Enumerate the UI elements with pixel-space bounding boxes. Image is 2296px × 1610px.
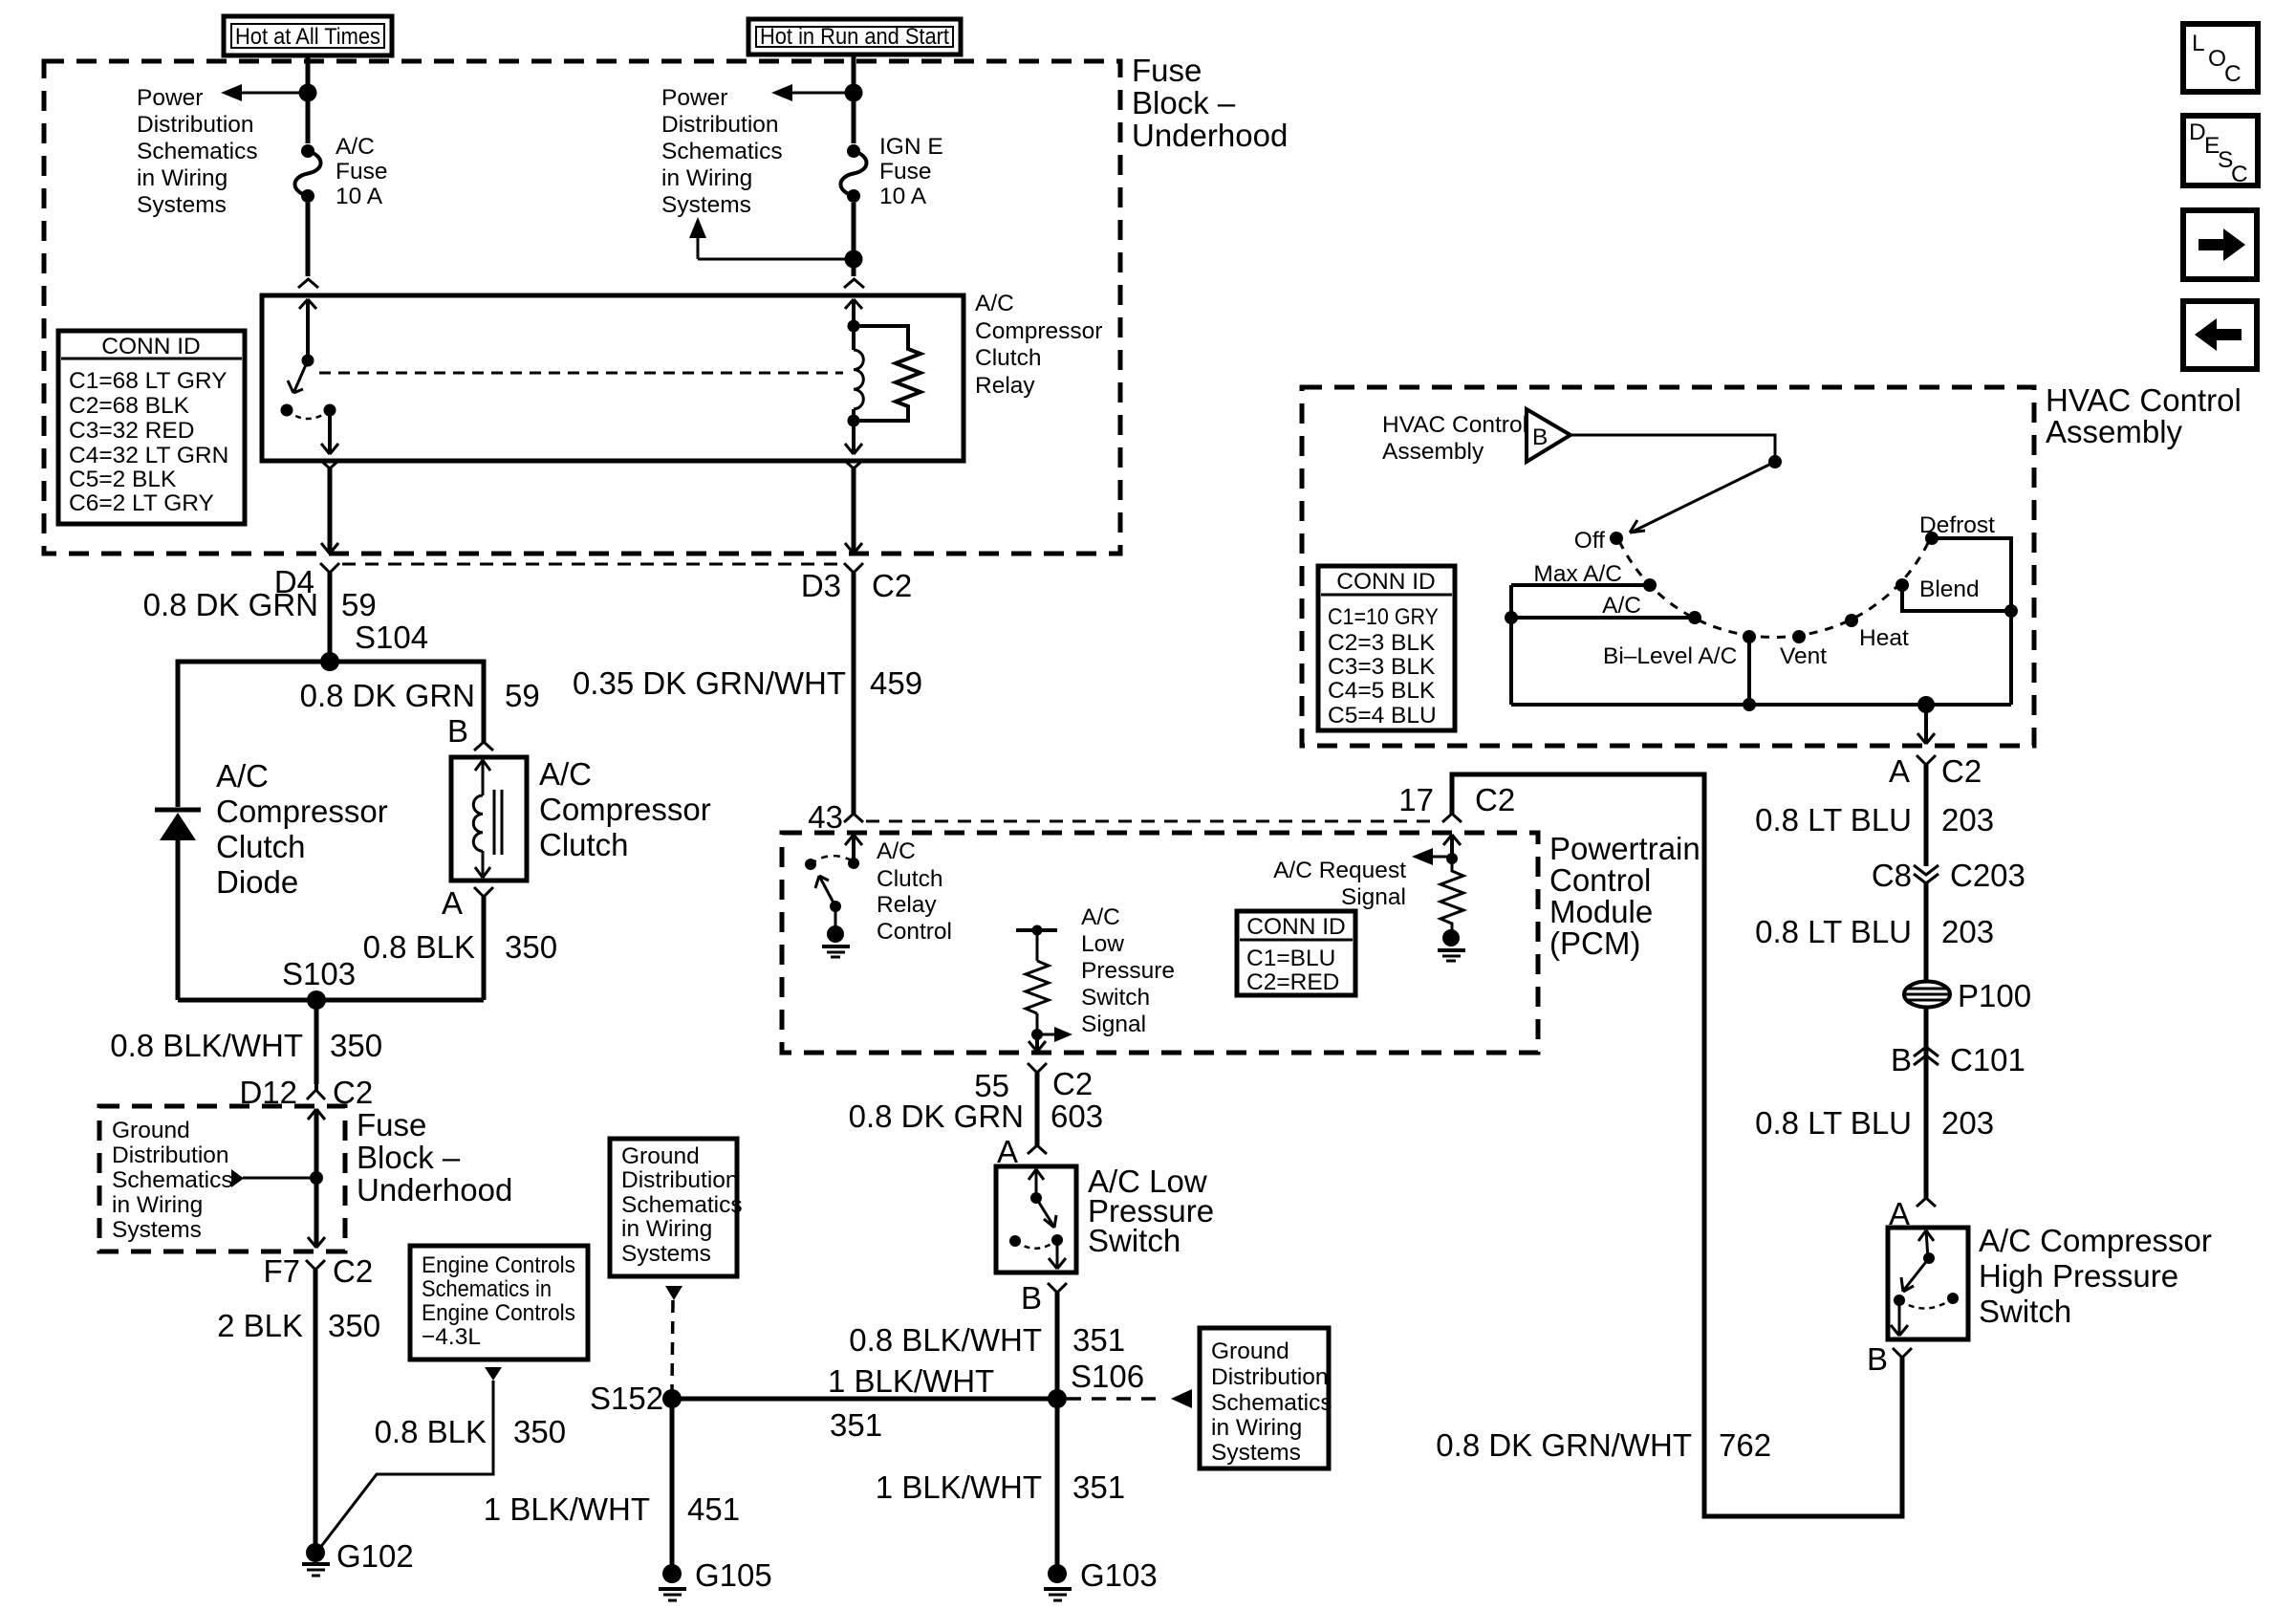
svg-text:350: 350 <box>330 1028 382 1063</box>
svg-text:Engine Controls: Engine Controls <box>422 1300 575 1326</box>
svg-text:S103: S103 <box>282 956 356 991</box>
wire Max A/C <box>1511 583 1644 587</box>
svg-text:0.8 BLK/WHT: 0.8 BLK/WHT <box>110 1028 303 1063</box>
svg-text:HVAC Control: HVAC Control <box>2046 382 2242 418</box>
svg-text:17: 17 <box>1398 782 1434 817</box>
label box Hot at All Times <box>224 16 392 55</box>
powertrain control module dashed box <box>782 833 1538 1053</box>
svg-text:C: C <box>2224 61 2242 87</box>
svg-text:Power: Power <box>661 85 727 111</box>
svg-text:CONN ID: CONN ID <box>1246 914 1345 940</box>
ground distribution note box (S152) <box>610 1139 743 1276</box>
wire hot-at-all-times to relay <box>306 55 311 276</box>
svg-text:A/C Request: A/C Request <box>1273 858 1406 883</box>
svg-text:C2=3 BLK: C2=3 BLK <box>1328 630 1436 656</box>
label 0.8 LT BLU 203 (2) <box>1755 914 1994 949</box>
wire into ground distribution with up arrow <box>308 1109 325 1224</box>
svg-text:C4=5 BLK: C4=5 BLK <box>1328 678 1436 704</box>
svg-text:Underhood: Underhood <box>357 1172 512 1207</box>
svg-text:in Wiring: in Wiring <box>621 1216 712 1242</box>
ground distribution note box (S106) <box>1200 1328 1332 1469</box>
icon left-arrow box <box>2183 301 2257 369</box>
svg-text:Distribution: Distribution <box>112 1142 229 1168</box>
svg-text:Schematics: Schematics <box>112 1167 233 1193</box>
arrow to Signal label <box>1037 1027 1072 1042</box>
label 0.8 DK GRN 59 <box>143 587 377 622</box>
label A/C Compressor Clutch <box>539 756 711 862</box>
wire S103 to D12 <box>314 1000 319 1084</box>
svg-text:C1=BLU: C1=BLU <box>1246 946 1335 971</box>
wire hot-in-run to relay <box>852 54 856 276</box>
wire S104 left branch to diode <box>178 662 330 807</box>
HVAC CONN ID table <box>1318 566 1455 730</box>
high pressure switch exit arrow <box>1891 1300 1908 1336</box>
svg-text:Distribution: Distribution <box>661 112 779 138</box>
connector A C2 (HVAC) <box>1889 753 1982 789</box>
svg-text:0.8 LT BLU: 0.8 LT BLU <box>1755 1105 1912 1141</box>
svg-text:Ground: Ground <box>1211 1338 1289 1364</box>
splice S106 <box>1048 1359 1144 1408</box>
icon right-arrow box <box>2183 210 2257 279</box>
high pressure switch right contact dot <box>1947 1293 1959 1304</box>
a/c clutch relay control left contact dot <box>805 859 816 870</box>
high pressure switch pivot dot <box>1894 1295 1905 1306</box>
svg-text:G103: G103 <box>1080 1557 1158 1593</box>
a/c compressor high pressure switch box <box>1888 1228 1968 1339</box>
svg-text:Underhood: Underhood <box>1132 118 1288 153</box>
svg-text:Control: Control <box>1549 862 1651 898</box>
label 1 BLK/WHT 451 <box>484 1491 740 1527</box>
svg-text:Pressure: Pressure <box>1081 958 1175 984</box>
buffer triangle B <box>1527 409 1570 462</box>
wire left bracket <box>1509 585 1513 705</box>
wire P100 to C101 <box>1924 1008 1929 1073</box>
wire from triangle to wiper <box>1570 435 1782 533</box>
svg-text:0.8 DK GRN: 0.8 DK GRN <box>849 1099 1024 1134</box>
wire PCM 17 to high pressure switch B <box>1452 774 1902 1516</box>
svg-text:C8: C8 <box>1872 858 1912 893</box>
junction HVAC output <box>1917 696 1935 713</box>
position dot Blend <box>1895 578 1909 592</box>
wire HVAC output with down arrow <box>1917 705 1935 744</box>
svg-text:B: B <box>1891 1042 1912 1077</box>
svg-text:1 BLK/WHT: 1 BLK/WHT <box>876 1469 1042 1505</box>
svg-text:0.8 DK GRN/WHT: 0.8 DK GRN/WHT <box>1436 1427 1692 1463</box>
wire 55 to low pressure switch A <box>1035 1073 1040 1145</box>
svg-text:0.8 DK GRN: 0.8 DK GRN <box>300 678 475 713</box>
svg-text:Off: Off <box>1574 528 1605 554</box>
junction Bi-Level bottom <box>1743 698 1756 711</box>
label A/C Compressor Clutch Diode <box>216 758 388 900</box>
svg-text:59: 59 <box>341 587 377 622</box>
svg-text:A: A <box>442 885 463 921</box>
svg-text:C1=10 GRY: C1=10 GRY <box>1328 604 1439 630</box>
label Fuse Block - Underhood <box>1132 53 1288 153</box>
svg-text:Schematics: Schematics <box>1211 1390 1332 1416</box>
wire Bi-Level drop <box>1747 642 1751 705</box>
connector C8 C203 <box>1872 858 2025 893</box>
pass-through grommet P100 <box>1904 978 2031 1013</box>
svg-text:in Wiring: in Wiring <box>661 165 752 191</box>
wire bottom bus <box>1511 703 2011 707</box>
low pressure switch fixed dot <box>1030 1192 1042 1204</box>
svg-text:1 BLK/WHT: 1 BLK/WHT <box>484 1491 650 1527</box>
svg-text:in Wiring: in Wiring <box>137 165 227 191</box>
svg-text:Ground: Ground <box>112 1118 190 1143</box>
a/c clutch relay control blade <box>815 876 835 906</box>
svg-text:Hot in Run and Start: Hot in Run and Start <box>760 24 949 50</box>
svg-text:Schematics: Schematics <box>137 139 258 164</box>
position dot Bi-Level <box>1743 630 1756 643</box>
label A/C Low Pressure Switch Signal <box>1081 904 1175 1037</box>
svg-text:A/C: A/C <box>877 838 916 864</box>
svg-text:C2: C2 <box>1475 782 1515 817</box>
svg-text:351: 351 <box>1072 1469 1125 1505</box>
wire C101 to high pressure switch A <box>1924 1073 1929 1198</box>
svg-text:A/C: A/C <box>336 134 375 160</box>
note Power Distribution Schematics in Wiring Systems (right) <box>661 85 783 218</box>
svg-text:Systems: Systems <box>137 192 227 218</box>
svg-text:2 BLK: 2 BLK <box>217 1308 303 1343</box>
svg-text:43: 43 <box>808 799 843 835</box>
connector A (high pressure switch) <box>1889 1196 1936 1231</box>
svg-text:Schematics in: Schematics in <box>422 1276 552 1302</box>
svg-text:Compressor: Compressor <box>216 794 388 829</box>
low pressure switch blade <box>1036 1198 1056 1228</box>
wire arrow from ground distribution note <box>231 1169 316 1187</box>
svg-text:350: 350 <box>505 929 557 965</box>
high pressure switch dashed arc <box>1899 1298 1953 1309</box>
svg-text:S106: S106 <box>1071 1359 1144 1394</box>
wire arrow to power distribution (left) <box>221 84 308 101</box>
svg-text:Vent: Vent <box>1780 643 1827 669</box>
a/c clutch relay control pivot dot <box>830 901 841 912</box>
svg-text:Clutch: Clutch <box>216 829 306 864</box>
svg-text:203: 203 <box>1941 802 1994 838</box>
label Powertrain Control Module (PCM) <box>1549 831 1700 961</box>
svg-text:C5=4 BLU: C5=4 BLU <box>1328 703 1437 729</box>
wire HVAC A to C203 <box>1924 765 1929 866</box>
svg-text:L: L <box>2192 31 2205 56</box>
wire branch with up arrow <box>689 217 854 259</box>
svg-text:C2: C2 <box>333 1253 373 1289</box>
label A/C Request Signal <box>1273 858 1406 910</box>
wire D3 to PCM pin 43 <box>852 573 856 814</box>
svg-text:A: A <box>1889 753 1910 789</box>
junction low pressure signal <box>1031 1029 1043 1040</box>
svg-text:C: C <box>2231 162 2248 187</box>
label 0.8 BLK/WHT 351 <box>849 1322 1125 1358</box>
a/c clutch relay control switch fixed dot <box>848 858 859 869</box>
svg-text:B: B <box>1532 424 1548 450</box>
relay coil top junction <box>848 320 860 333</box>
svg-text:Fuse: Fuse <box>879 159 931 185</box>
splice S152 <box>590 1381 682 1416</box>
position dot Vent <box>1792 630 1806 643</box>
svg-text:0.8 DK GRN: 0.8 DK GRN <box>143 587 318 622</box>
svg-text:G102: G102 <box>336 1538 414 1574</box>
relay contact NC dot <box>281 404 293 417</box>
PCM pin arrow 17 <box>1443 835 1461 859</box>
svg-text:Clutch: Clutch <box>539 827 629 862</box>
low pressure switch exit arrow <box>1049 1240 1066 1269</box>
svg-text:Distribution: Distribution <box>137 112 254 138</box>
connector A (clutch) <box>442 885 493 921</box>
svg-text:Bi–Level A/C: Bi–Level A/C <box>1603 643 1737 669</box>
ground G105 <box>659 1557 772 1600</box>
svg-text:Assembly: Assembly <box>1382 439 1484 465</box>
svg-text:Ground: Ground <box>621 1143 700 1169</box>
svg-text:A/C: A/C <box>1602 593 1641 619</box>
svg-text:C3=32 RED: C3=32 RED <box>69 418 194 444</box>
junction at A/C fuse feed <box>299 84 317 102</box>
low pressure switch pivot dot <box>1051 1234 1063 1246</box>
label 0.8 LT BLU 203 (3) <box>1755 1105 1994 1141</box>
a/c low pressure switch signal resistor <box>1016 925 1057 1035</box>
svg-text:0.8 BLK/WHT: 0.8 BLK/WHT <box>849 1322 1042 1358</box>
junction A/C left <box>1505 611 1518 624</box>
svg-text:762: 762 <box>1719 1427 1771 1463</box>
junction IGN E branch <box>845 250 863 269</box>
relay switch output wire with down arrow <box>321 410 338 454</box>
connector D4 C2 <box>274 563 339 599</box>
svg-text:C203: C203 <box>1950 858 2025 893</box>
position dot A/C <box>1688 611 1701 624</box>
svg-text:Signal: Signal <box>1341 884 1406 910</box>
label HVAC Control Assembly (outer) <box>2046 382 2242 449</box>
connector half above relay (right) <box>844 279 864 288</box>
svg-text:Relay: Relay <box>877 892 937 918</box>
fuse IGN E Fuse 10 A <box>841 143 867 203</box>
dashed wire from note to S152 <box>665 1286 682 1391</box>
ground inside PCM (relay control) <box>822 906 850 957</box>
svg-text:B: B <box>447 713 468 749</box>
wire clutch A to S103 <box>482 897 487 1000</box>
svg-text:Signal: Signal <box>1081 1012 1146 1037</box>
splice S104 <box>320 620 428 671</box>
label A/C Fuse 10 A <box>336 134 387 209</box>
svg-text:C6=2 LT GRY: C6=2 LT GRY <box>69 490 214 516</box>
position dot Heat <box>1845 614 1858 627</box>
relay coil <box>854 326 863 421</box>
svg-text:350: 350 <box>328 1308 380 1343</box>
svg-text:D3: D3 <box>801 568 841 603</box>
svg-text:Blend: Blend <box>1919 577 1980 602</box>
relay box A/C Compressor Clutch Relay <box>262 295 964 461</box>
connector pin 17 <box>1398 782 1515 822</box>
junction ground distribution tap <box>310 1171 323 1185</box>
svg-text:Block –: Block – <box>357 1140 461 1175</box>
svg-text:Switch: Switch <box>1979 1294 2071 1329</box>
PCM CONN ID table <box>1237 911 1355 995</box>
note Ground Distribution Schematics in Wiring Systems (D12) <box>112 1118 233 1243</box>
label 0.8 DK GRN/WHT 762 <box>1436 1427 1771 1463</box>
svg-text:Block –: Block – <box>1132 85 1236 120</box>
svg-text:451: 451 <box>687 1491 740 1527</box>
relay resistor (parallel) <box>854 326 921 421</box>
svg-text:S152: S152 <box>590 1381 663 1416</box>
HVAC control assembly dashed box <box>1302 387 2034 746</box>
clutch pin arrow top <box>475 760 490 795</box>
diode A/C compressor clutch diode <box>155 810 201 1000</box>
svg-text:Compressor: Compressor <box>975 318 1102 344</box>
relay dashed control link <box>319 372 843 375</box>
wire low pressure B to S106 <box>1055 1293 1060 1399</box>
rotary switch dashed arc <box>1619 541 1929 638</box>
high pressure switch pin arrow <box>1918 1230 1934 1258</box>
svg-text:F7: F7 <box>263 1253 300 1289</box>
wire F7 to G102 <box>314 1270 318 1551</box>
connector CONN ID table (fuse block) <box>58 331 245 524</box>
svg-text:Module: Module <box>1549 894 1653 929</box>
svg-text:10 A: 10 A <box>879 184 927 209</box>
dashed wire S106 to ground distribution note <box>1067 1389 1192 1408</box>
connector B C101 <box>1891 1042 2025 1077</box>
wire S104 right branch to clutch <box>330 662 484 742</box>
svg-text:Schematics: Schematics <box>621 1192 743 1218</box>
arrow A/C request signal <box>1412 848 1452 865</box>
svg-text:Diode: Diode <box>216 864 298 900</box>
label 0.35 DK GRN/WHT 459 <box>573 665 922 701</box>
ground G102 <box>302 1538 414 1576</box>
svg-text:Distribution: Distribution <box>1211 1364 1329 1390</box>
ground distribution dashed box (fuse block lower) <box>99 1106 345 1251</box>
svg-text:Low: Low <box>1081 931 1124 957</box>
position dot Max A/C <box>1643 578 1657 592</box>
wire A/C <box>1511 616 1689 620</box>
svg-text:High Pressure: High Pressure <box>1979 1258 2178 1294</box>
low pressure switch pin arrow <box>1029 1169 1044 1198</box>
relay contact dashed arc <box>287 410 330 419</box>
label 0.8 BLK/WHT 350 <box>110 1028 382 1063</box>
svg-text:C5=2 BLK: C5=2 BLK <box>69 467 177 492</box>
svg-text:S104: S104 <box>355 620 428 655</box>
svg-text:Distribution: Distribution <box>621 1167 739 1193</box>
connector pin 43 <box>808 799 863 835</box>
svg-text:Defrost: Defrost <box>1919 512 1995 538</box>
svg-text:−4.3L: −4.3L <box>422 1324 481 1350</box>
wire relay output right to border <box>845 461 862 554</box>
svg-text:603: 603 <box>1051 1099 1103 1134</box>
svg-text:C4=32 LT GRN: C4=32 LT GRN <box>69 443 228 468</box>
svg-text:CONN ID: CONN ID <box>1336 569 1435 595</box>
wire low pressure signal exit with down arrow <box>1029 1034 1046 1052</box>
wire arrow to power distribution (right) <box>771 84 854 101</box>
clutch pin arrow bottom <box>475 851 490 878</box>
ground G103 <box>1044 1557 1158 1600</box>
connector F7 C2 <box>263 1253 373 1289</box>
svg-text:G105: G105 <box>695 1557 772 1593</box>
low pressure switch dashed arc <box>1015 1240 1057 1249</box>
relay switch pin arrow (power in) <box>299 299 316 360</box>
icon DESC box <box>2183 116 2258 187</box>
svg-text:P100: P100 <box>1958 978 2031 1013</box>
label A/C Compressor High Pressure Switch <box>1979 1223 2212 1329</box>
wire S106 to G103 <box>1055 1399 1060 1568</box>
svg-text:C101: C101 <box>1950 1042 2025 1077</box>
label 0.8 BLK 350 <box>363 929 557 965</box>
a/c request signal node dot <box>1446 853 1458 864</box>
position dot Off <box>1610 532 1623 545</box>
label IGN E Fuse 10 A <box>879 134 943 209</box>
relay switch blade <box>288 360 308 393</box>
svg-text:IGN E: IGN E <box>879 134 943 160</box>
relay coil bottom junction <box>848 415 860 427</box>
label 0.8 DK GRN 603 <box>849 1099 1103 1134</box>
svg-text:A/C: A/C <box>1081 904 1120 930</box>
high pressure switch blade <box>1901 1258 1929 1292</box>
wire relay output left to border <box>321 461 338 554</box>
svg-text:Power: Power <box>137 85 203 111</box>
label box Hot in Run and Start <box>748 19 961 54</box>
clutch coil <box>473 795 483 851</box>
svg-text:C3=3 BLK: C3=3 BLK <box>1328 654 1436 680</box>
svg-text:351: 351 <box>830 1407 882 1443</box>
svg-text:(PCM): (PCM) <box>1549 925 1640 961</box>
wire Defrost drop <box>1938 538 2011 705</box>
wire exit with down arrow <box>314 1178 319 1246</box>
connector half above relay (left) <box>298 279 318 288</box>
svg-text:A/C: A/C <box>539 756 592 792</box>
svg-text:C2=68 BLK: C2=68 BLK <box>69 393 190 419</box>
label 2 BLK 350 <box>217 1308 380 1343</box>
label 0.8 DK GRN 59 (branch) <box>300 678 540 713</box>
relay coil output wire with down arrow <box>845 421 862 454</box>
position dot Defrost <box>1925 532 1939 545</box>
label 0.8 BLK 350 (engine controls) <box>375 1414 566 1449</box>
label A/C Low Pressure Switch <box>1088 1164 1214 1258</box>
connector B (high pressure switch) <box>1867 1341 1912 1377</box>
svg-text:0.35 DK GRN/WHT: 0.35 DK GRN/WHT <box>573 665 846 701</box>
svg-text:203: 203 <box>1941 914 1994 949</box>
svg-text:0.8 LT BLU: 0.8 LT BLU <box>1755 914 1912 949</box>
svg-text:Assembly: Assembly <box>2046 414 2183 449</box>
relay switch common dot <box>302 355 314 367</box>
svg-text:Clutch: Clutch <box>877 866 942 892</box>
svg-text:A: A <box>997 1134 1018 1169</box>
svg-text:in Wiring: in Wiring <box>1211 1415 1302 1441</box>
svg-text:0.8 LT BLU: 0.8 LT BLU <box>1755 802 1912 838</box>
a/c clutch relay control dashed arc <box>811 856 854 864</box>
svg-text:203: 203 <box>1941 1105 1994 1141</box>
relay coil pin arrow <box>845 299 862 326</box>
PCM pin arrow 43 <box>845 835 862 863</box>
svg-text:0.8 BLK: 0.8 BLK <box>363 929 475 965</box>
icon LOC box <box>2183 24 2258 92</box>
label 0.8 LT BLU 203 (1) <box>1755 802 1994 838</box>
svg-text:Systems: Systems <box>661 192 751 218</box>
connector A (low pressure switch) <box>997 1134 1047 1169</box>
fuse block underhood dashed box <box>44 61 1120 554</box>
junction Blend right <box>2004 604 2018 618</box>
dashed connector C2 link 43 to 17 <box>866 820 1440 823</box>
high pressure switch fixed dot <box>1923 1252 1935 1264</box>
wire D4 to S104 <box>328 573 333 662</box>
svg-text:A/C Compressor: A/C Compressor <box>1979 1223 2212 1258</box>
wire S103 horizontal <box>178 998 484 1003</box>
junction at IGN E fuse feed <box>845 84 863 102</box>
svg-text:C2=RED: C2=RED <box>1246 969 1339 995</box>
svg-text:Systems: Systems <box>1211 1440 1301 1466</box>
svg-text:59: 59 <box>505 678 540 713</box>
svg-text:Switch: Switch <box>1081 985 1150 1011</box>
svg-text:Fuse: Fuse <box>357 1107 426 1142</box>
svg-text:CONN ID: CONN ID <box>101 334 200 359</box>
svg-text:Hot at All Times: Hot at All Times <box>235 24 380 50</box>
svg-text:1 BLK/WHT: 1 BLK/WHT <box>828 1363 994 1399</box>
svg-text:Engine Controls: Engine Controls <box>422 1252 575 1278</box>
svg-text:B: B <box>1867 1341 1888 1377</box>
